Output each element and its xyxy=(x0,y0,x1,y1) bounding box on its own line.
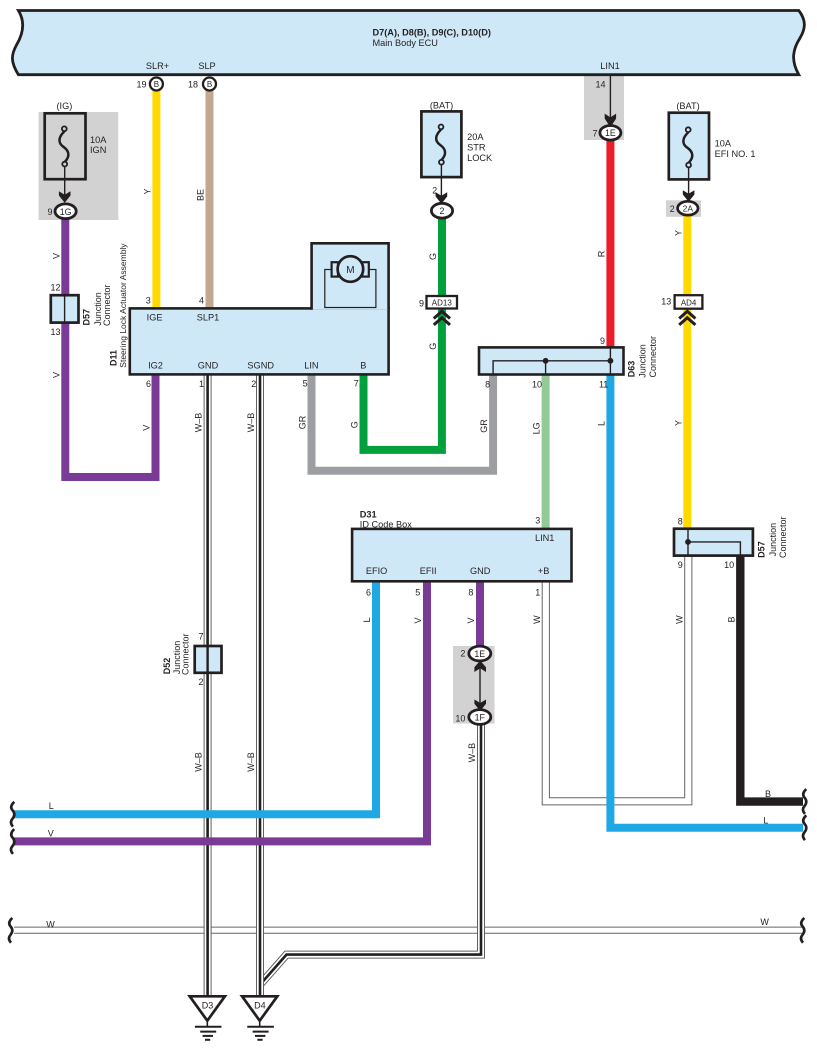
svg-text:Junction: Junction xyxy=(638,344,648,378)
svg-text:2: 2 xyxy=(198,677,203,687)
svg-text:D57: D57 xyxy=(757,541,767,558)
svg-text:M: M xyxy=(346,265,354,276)
D57 right pins xyxy=(678,517,734,571)
fuse STR LOCK element xyxy=(436,125,445,165)
wire W from D31 +B pin 1 down, across, up to D57 pin 9 xyxy=(546,556,689,802)
svg-text:6: 6 xyxy=(366,588,371,598)
connector 2 oval xyxy=(431,203,452,218)
D52 junction connector box xyxy=(195,646,222,673)
svg-text:Y: Y xyxy=(673,230,683,236)
svg-text:3: 3 xyxy=(535,516,540,526)
svg-text:1E: 1E xyxy=(605,128,616,138)
wire L from D63 pin 11 down and right to break xyxy=(610,375,803,828)
break symbol right L xyxy=(803,815,806,840)
D11 pin labels xyxy=(147,313,367,371)
AD13 connector label box xyxy=(427,296,458,309)
D31 pin labels xyxy=(366,533,555,576)
svg-text:(IG): (IG) xyxy=(56,101,72,111)
svg-text:B: B xyxy=(154,80,159,89)
svg-text:BE: BE xyxy=(196,189,206,201)
motor brushes xyxy=(332,262,338,276)
svg-text:13: 13 xyxy=(661,296,671,306)
motor inner frame xyxy=(325,270,376,308)
ECU pin 19 terminal B xyxy=(150,78,163,91)
svg-text:AD4: AD4 xyxy=(681,299,697,308)
svg-text:D63: D63 xyxy=(627,361,637,378)
ECU pin name labels xyxy=(146,61,620,71)
svg-text:IG2: IG2 xyxy=(148,360,163,370)
svg-text:Main Body ECU: Main Body ECU xyxy=(373,38,438,48)
D52 rotated name xyxy=(162,633,191,675)
svg-text:2: 2 xyxy=(460,649,465,659)
svg-text:7: 7 xyxy=(354,379,359,389)
svg-text:W: W xyxy=(760,917,769,927)
D31 pin numbers xyxy=(366,516,540,598)
Main Body ECU band xyxy=(12,11,804,75)
ECU pin numbers and terminals xyxy=(136,80,605,139)
svg-text:11: 11 xyxy=(599,380,608,390)
wire W horizontal bottom (left break to right break) xyxy=(14,927,803,934)
D57 upper rotated name xyxy=(81,284,112,326)
fuse EFI labels xyxy=(676,101,755,159)
svg-text:10: 10 xyxy=(455,714,465,724)
wire R from connector 1E to D63 pin 9 xyxy=(606,140,614,348)
svg-text:W: W xyxy=(532,615,542,624)
svg-text:LIN1: LIN1 xyxy=(535,533,554,543)
svg-text:10A: 10A xyxy=(715,138,732,148)
svg-text:18: 18 xyxy=(188,80,198,90)
D63 rotated name xyxy=(627,336,659,378)
wire G from D11 B pin 7 down, right, up to AD13 xyxy=(364,309,442,450)
svg-text:10: 10 xyxy=(532,380,542,390)
AD4 chevrons xyxy=(679,311,695,325)
svg-text:9: 9 xyxy=(678,560,683,570)
fuse STR LOCK labels xyxy=(430,101,493,163)
D57 upper pins xyxy=(50,282,60,337)
rotated wire color codes xyxy=(51,188,736,771)
fuse IGN element xyxy=(59,126,68,166)
svg-text:LIN1: LIN1 xyxy=(600,61,619,71)
arrows between 1E and 1F xyxy=(474,661,486,712)
svg-text:12: 12 xyxy=(50,282,60,292)
svg-text:8: 8 xyxy=(678,517,683,527)
svg-text:SLP: SLP xyxy=(198,61,215,71)
svg-text:2: 2 xyxy=(432,185,437,195)
fuse IGN output lead and arrow xyxy=(59,167,71,203)
svg-text:9: 9 xyxy=(600,336,605,346)
svg-text:SLR+: SLR+ xyxy=(146,61,169,71)
svg-text:10A: 10A xyxy=(90,135,107,145)
motor M circle xyxy=(338,256,364,282)
wire GR from D11 LIN pin 5 down, right, up to D63 pin 8 xyxy=(312,374,494,470)
D11 pin numbers xyxy=(146,295,359,389)
D31 ID Code Box box xyxy=(352,529,571,581)
break symbol right B xyxy=(803,789,806,814)
svg-text:(BAT): (BAT) xyxy=(676,101,699,111)
D57 junction connector (right) box xyxy=(674,529,753,556)
svg-text:Y: Y xyxy=(142,188,152,194)
svg-text:V: V xyxy=(51,372,61,378)
fuse EFI NO.1 element xyxy=(683,127,692,167)
svg-text:D31: D31 xyxy=(360,510,377,520)
svg-text:W–B: W–B xyxy=(246,752,256,772)
AD4 connector label box xyxy=(675,295,703,309)
svg-text:EFI NO. 1: EFI NO. 1 xyxy=(715,149,756,159)
svg-text:STR: STR xyxy=(467,143,486,153)
svg-text:5: 5 xyxy=(303,379,308,389)
AD13 chevrons xyxy=(434,311,450,325)
svg-text:14: 14 xyxy=(595,80,605,90)
svg-text:W–B: W–B xyxy=(194,752,204,772)
connector 1F oval xyxy=(469,710,491,725)
svg-text:W: W xyxy=(674,615,684,624)
svg-text:Junction: Junction xyxy=(768,523,778,557)
svg-text:20A: 20A xyxy=(467,132,484,142)
D11 rotated name xyxy=(109,243,128,368)
svg-text:G: G xyxy=(428,343,438,350)
fuse IGN box xyxy=(45,113,86,179)
svg-text:W: W xyxy=(46,920,55,930)
D52 pins xyxy=(198,632,203,687)
svg-text:G: G xyxy=(428,253,438,260)
break symbol left V xyxy=(11,829,14,854)
svg-text:V: V xyxy=(48,829,54,839)
svg-text:B: B xyxy=(207,80,212,89)
svg-text:GND: GND xyxy=(470,566,491,576)
svg-text:2: 2 xyxy=(670,204,675,214)
wire G from fuse STR LOCK connector 2 down to AD13 xyxy=(438,216,446,309)
svg-text:L: L xyxy=(362,617,372,622)
gray highlight behind connectors 1E/1F xyxy=(453,646,495,724)
D57 junction connector (upper left) box xyxy=(51,295,79,322)
svg-text:R: R xyxy=(596,250,606,257)
svg-text:(BAT): (BAT) xyxy=(430,101,453,111)
svg-text:W–B: W–B xyxy=(194,413,204,433)
svg-text:GR: GR xyxy=(298,415,308,429)
gray highlight behind LIN1 pin 14 / connector 1E xyxy=(584,76,624,141)
wire LG from D63 pin 10 to D31 LIN1 pin 3 xyxy=(542,375,550,529)
svg-text:8: 8 xyxy=(485,380,490,390)
svg-text:B: B xyxy=(765,789,771,799)
wire W-B from D11 SGND pin 2 down to ground D4 xyxy=(256,374,264,997)
svg-text:GND: GND xyxy=(198,360,219,370)
break symbol left W xyxy=(9,918,12,943)
svg-text:LOCK: LOCK xyxy=(467,153,493,163)
svg-text:IGN: IGN xyxy=(90,145,106,155)
svg-text:EFII: EFII xyxy=(420,566,437,576)
svg-text:W–B: W–B xyxy=(467,743,477,763)
svg-text:Steering Lock Actuator Assembl: Steering Lock Actuator Assembly xyxy=(118,243,128,368)
svg-text:1G: 1G xyxy=(60,207,72,217)
motor housing box xyxy=(312,243,389,309)
ground D3 xyxy=(190,996,225,1040)
svg-text:1: 1 xyxy=(535,588,540,598)
break symbol right W xyxy=(801,918,804,943)
svg-text:B: B xyxy=(726,616,736,622)
svg-text:EFIO: EFIO xyxy=(366,566,387,576)
wire B from D57 pin 10 down and right to break xyxy=(740,556,803,802)
svg-text:1E: 1E xyxy=(474,649,485,659)
fuse EFI NO.1 box xyxy=(669,113,709,180)
wire V from left break to D31 EFII pin 5 xyxy=(14,581,427,841)
svg-text:L: L xyxy=(596,421,606,426)
fuse EFI output lead and arrow xyxy=(683,167,695,201)
connector 1E (top) oval xyxy=(600,126,621,141)
svg-text:13: 13 xyxy=(50,327,60,337)
svg-text:D57: D57 xyxy=(81,309,91,326)
connector 1E (mid) oval xyxy=(469,646,491,661)
svg-text:D52: D52 xyxy=(162,658,172,675)
ECU pin 18 terminal B xyxy=(203,78,216,91)
svg-text:LIN: LIN xyxy=(304,360,318,370)
svg-text:G: G xyxy=(350,421,360,428)
svg-text:L: L xyxy=(763,816,768,826)
svg-text:IGE: IGE xyxy=(147,313,163,323)
svg-text:V: V xyxy=(466,617,476,623)
horizontal wire labels xyxy=(46,789,771,930)
ECU title text xyxy=(373,28,491,48)
connector 1G oval xyxy=(55,204,76,219)
svg-text:SGND: SGND xyxy=(247,360,274,370)
svg-text:8: 8 xyxy=(468,588,473,598)
svg-text:Connector: Connector xyxy=(648,336,658,378)
svg-text:1F: 1F xyxy=(475,713,486,723)
wire V from D31 GND pin 8 to connector 1E xyxy=(476,581,484,648)
svg-text:SLP1: SLP1 xyxy=(197,313,219,323)
svg-text:4: 4 xyxy=(199,295,204,305)
fuse STR LOCK box xyxy=(421,111,461,177)
svg-text:V: V xyxy=(142,425,152,431)
svg-text:Connector: Connector xyxy=(181,633,191,675)
wire W-B from connector 1F down, left and diagonal into ground D4 xyxy=(260,724,481,985)
svg-text:7: 7 xyxy=(592,128,597,138)
svg-text:D3: D3 xyxy=(202,1000,214,1010)
svg-text:9: 9 xyxy=(419,298,424,308)
wire W-B from D11 GND pin 1 down to ground D3 xyxy=(204,374,212,997)
svg-text:6: 6 xyxy=(146,379,151,389)
svg-text:GR: GR xyxy=(479,419,489,433)
svg-text:5: 5 xyxy=(415,588,420,598)
svg-text:D7(A), D8(B), D9(C), D10(D): D7(A), D8(B), D9(C), D10(D) xyxy=(373,28,491,38)
svg-text:LG: LG xyxy=(532,422,542,434)
D11 Steering Lock Actuator Assembly box xyxy=(130,308,389,374)
gray highlight behind fuse IGN xyxy=(39,112,119,220)
svg-text:9: 9 xyxy=(47,207,52,217)
gray highlight behind connector 2A xyxy=(666,200,701,217)
ground D4 xyxy=(242,996,277,1040)
D63 junction connector box xyxy=(479,347,624,374)
svg-text:V: V xyxy=(51,253,61,259)
break symbol left L xyxy=(11,802,14,827)
svg-text:AD13: AD13 xyxy=(432,299,453,308)
svg-text:+B: +B xyxy=(538,566,550,576)
wire BE from ECU pin 18 SLP to D11 SLP1 pin 4 xyxy=(206,91,214,309)
svg-text:Y: Y xyxy=(673,420,683,426)
wire V from connector 1G through D57 down, right, up to D11 IG2 pin 6 xyxy=(65,217,155,477)
svg-text:Connector: Connector xyxy=(102,284,112,326)
svg-text:D4: D4 xyxy=(254,1000,266,1010)
svg-text:2: 2 xyxy=(251,379,256,389)
fuse IGN labels xyxy=(56,101,107,155)
svg-text:W–B: W–B xyxy=(246,413,256,433)
svg-text:L: L xyxy=(49,801,54,811)
D57 right rotated name xyxy=(757,516,788,558)
svg-text:V: V xyxy=(413,617,423,623)
wire L from left break to D31 EFIO pin 6 xyxy=(14,581,376,814)
fuse STR LOCK output lead and arrow xyxy=(436,165,448,204)
connector 2A oval xyxy=(678,201,698,215)
svg-text:7: 7 xyxy=(198,632,203,642)
svg-text:Connector: Connector xyxy=(778,516,788,558)
svg-text:19: 19 xyxy=(136,80,146,90)
ECU pin 14 LIN1 lead and arrow xyxy=(605,76,616,128)
svg-text:1: 1 xyxy=(199,379,204,389)
svg-text:3: 3 xyxy=(146,295,151,305)
svg-text:2A: 2A xyxy=(683,203,694,213)
wire Y from ECU pin 19 SLR+ to D11 IGE pin 3 xyxy=(152,91,160,309)
svg-text:10: 10 xyxy=(724,560,734,570)
svg-text:2: 2 xyxy=(440,206,445,216)
svg-text:B: B xyxy=(360,360,366,370)
svg-text:ID Code Box: ID Code Box xyxy=(360,520,412,530)
wire Y from connector 2A through AD4 down to D57 pin 8 xyxy=(683,214,691,529)
D63 pin numbers xyxy=(485,336,608,390)
